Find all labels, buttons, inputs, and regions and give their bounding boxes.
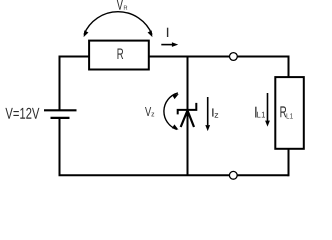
wire zener branch bbox=[187, 57, 189, 176]
label R bbox=[118, 49, 124, 60]
zener diode cathode bar with hooks bbox=[178, 103, 197, 115]
label I bbox=[167, 28, 168, 37]
wire left branch lower bbox=[59, 118, 61, 175]
terminal circle bottom bbox=[229, 171, 237, 179]
wire right branch upper bbox=[288, 56, 290, 79]
arc arrow VR bbox=[82, 12, 155, 38]
label V=12V bbox=[5, 108, 39, 119]
resistor R bbox=[89, 41, 149, 70]
arc arrow Vz bbox=[164, 92, 180, 132]
resistor RL1 bbox=[275, 77, 304, 149]
arrow Iz bbox=[205, 97, 210, 131]
zener diode triangle bbox=[181, 111, 194, 128]
wire right branch lower bbox=[288, 148, 290, 176]
battery V long plate bbox=[44, 109, 77, 111]
arrow I bbox=[161, 42, 178, 47]
terminal circle top bbox=[230, 53, 238, 61]
arrow IL1 bbox=[265, 93, 270, 127]
battery V short plate bbox=[51, 117, 70, 119]
label Iz bbox=[212, 108, 218, 117]
label VR bbox=[117, 0, 128, 10]
label Vz bbox=[145, 107, 154, 116]
wire top rail bbox=[60, 56, 289, 58]
wire bottom rail bbox=[59, 174, 289, 176]
label RL1 bbox=[280, 106, 292, 118]
label IL1 bbox=[255, 107, 265, 118]
wire left branch upper bbox=[59, 56, 61, 111]
